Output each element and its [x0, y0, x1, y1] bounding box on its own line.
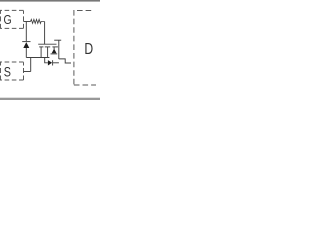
pin box G [0, 10, 24, 28]
transistor Q1 wiring [22, 19, 71, 71]
pin box S [0, 62, 24, 80]
mosfet Q1 body arrow [52, 49, 57, 54]
wire drain jog [59, 59, 71, 63]
package dashed box [74, 10, 96, 85]
mosfet Q1 channel segment mid [45, 46, 50, 48]
svg-text:S: S [4, 64, 11, 80]
wire zener D1 anode [25, 48, 27, 58]
wire S lead [24, 71, 31, 73]
figure top border [0, 0, 100, 2]
figure bottom border [0, 98, 100, 100]
mosfet Q1 drain bar [54, 39, 61, 41]
wire gate riser [44, 22, 46, 45]
svg-text:D: D [84, 41, 93, 59]
wire source stub [40, 47, 42, 58]
mosfet Q1 gate bar [38, 43, 56, 45]
svg-text:G: G [4, 12, 12, 27]
zener D1 triangle [23, 42, 29, 48]
wire arrow stub [53, 47, 55, 49]
mosfet Q1 channel segment left [39, 46, 43, 48]
wire S riser [30, 58, 32, 72]
wire rail step down [45, 58, 48, 63]
body diode D2 cathode bar [52, 60, 54, 65]
resistor R1 zigzag [31, 19, 45, 23]
zener D1 cathode bar [22, 41, 30, 43]
mosfet Q1 channel segment right [52, 46, 58, 48]
wire gate node to zener D1 [25, 22, 27, 42]
wire drain vertical [58, 40, 60, 59]
wire G lead [24, 21, 31, 23]
body diode D2 triangle [48, 60, 52, 65]
source rail [26, 57, 49, 59]
wire body stub [47, 47, 49, 58]
bar under arrow [51, 53, 58, 55]
wire body diode D2 to drain [53, 62, 59, 64]
